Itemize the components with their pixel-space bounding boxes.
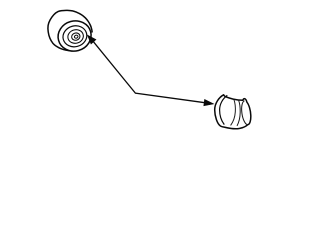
bushing (left): face ring 3 (66, 28, 85, 45)
bushing (left): front face outer ring (55, 17, 95, 55)
bushing (right): body silhouette (215, 95, 251, 129)
bushing (right): side contour arc 2 (237, 100, 240, 126)
bushing (left): rear body outline (48, 10, 92, 50)
bushing (right): flange inner rim arc (220, 95, 228, 124)
bushing (left): rear body white fill (48, 10, 92, 50)
bushing (left): face ring 2 (61, 23, 90, 49)
arrowhead (right, points to right bushing) (204, 99, 214, 105)
bushing (right): side contour arc 1 (231, 100, 236, 126)
bushing (left): face center hole (74, 35, 78, 39)
bushing (left): face ring 4 (71, 32, 81, 41)
leader line (bent, two segments) (94, 42, 205, 103)
bushing (right): end face ellipse left edge (242, 101, 248, 125)
arrowhead (upper-left, points to left bushing) (88, 35, 96, 44)
